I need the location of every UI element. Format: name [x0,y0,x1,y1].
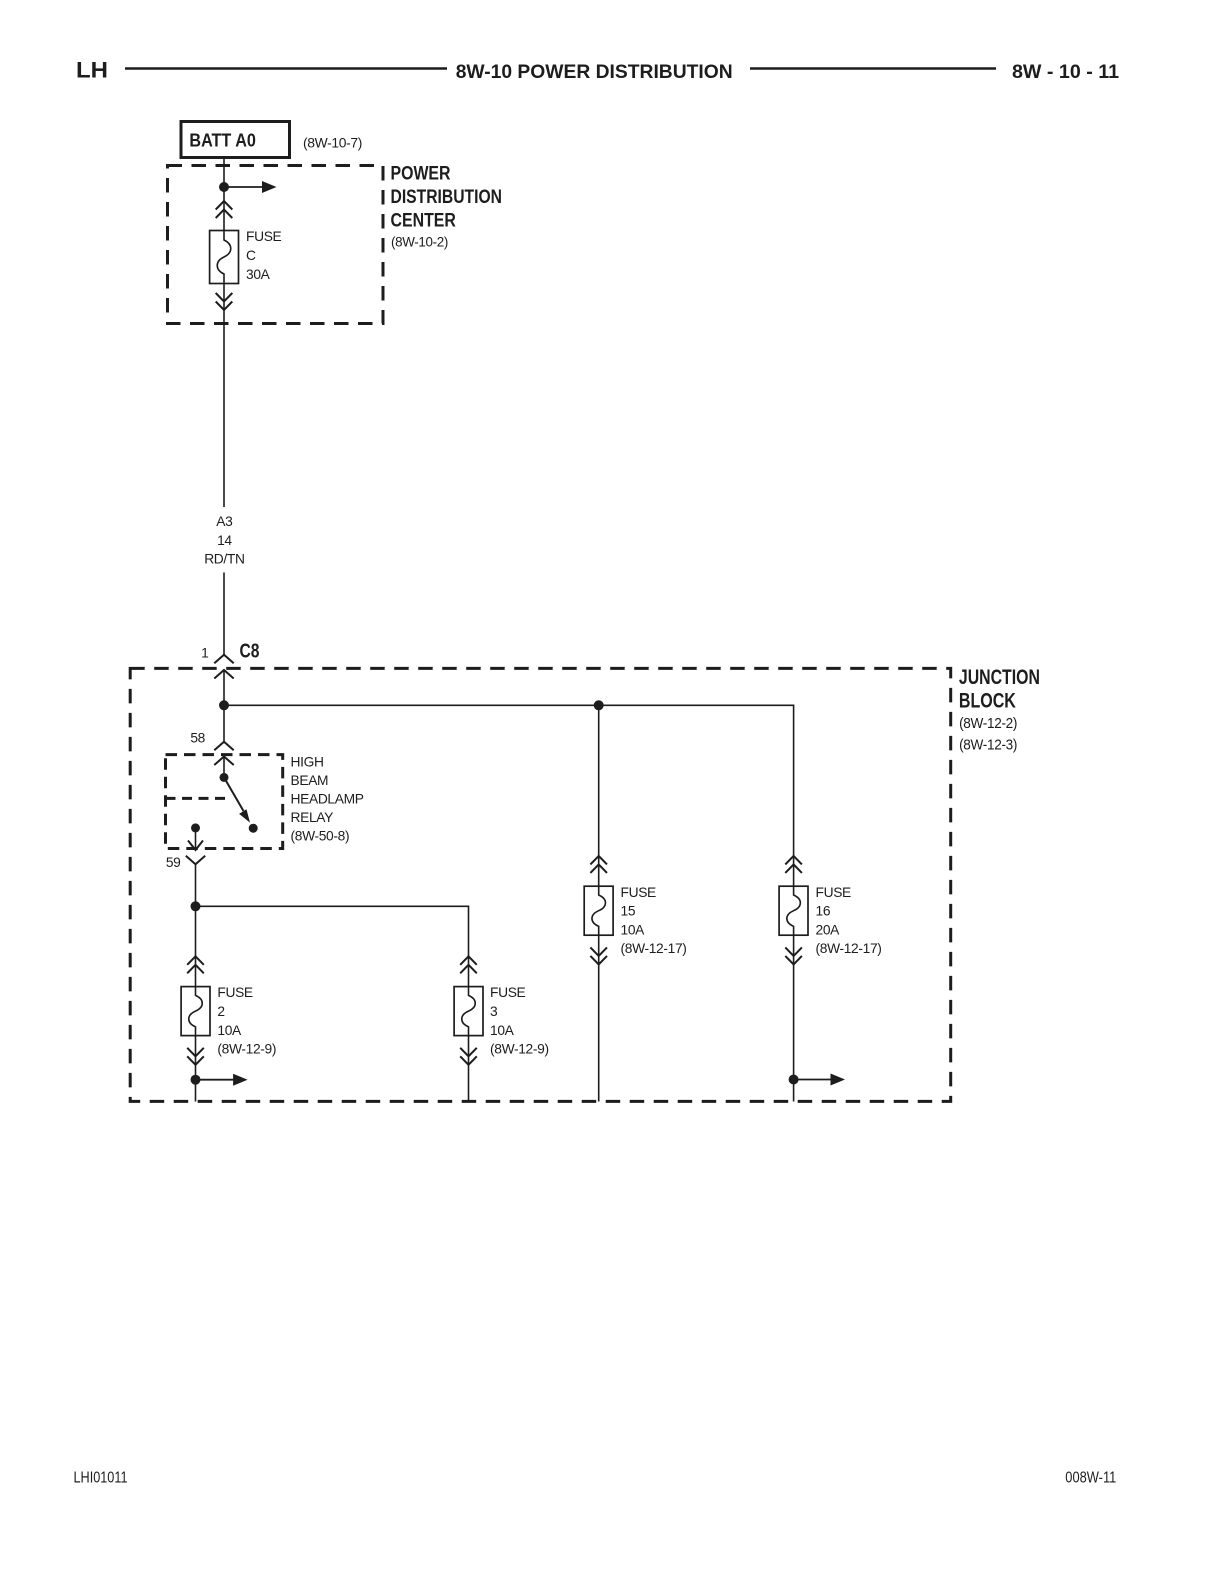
svg-text:FUSE: FUSE [621,885,657,900]
svg-text:008W-11: 008W-11 [1065,1469,1116,1486]
svg-text:(8W-12-17): (8W-12-17) [621,941,687,956]
svg-text:2: 2 [217,1004,224,1019]
svg-text:(8W-10-2): (8W-10-2) [391,234,448,250]
svg-text:(8W-12-17): (8W-12-17) [816,941,882,956]
svg-text:BEAM: BEAM [291,773,329,788]
svg-text:1: 1 [201,645,208,660]
svg-text:FUSE: FUSE [816,885,852,900]
svg-text:16: 16 [816,904,831,919]
svg-text:8W - 10 - 11: 8W - 10 - 11 [1012,61,1119,83]
svg-text:15: 15 [621,904,636,919]
svg-text:HEADLAMP: HEADLAMP [291,792,364,807]
svg-text:FUSE: FUSE [217,985,253,1000]
svg-text:(8W-12-9): (8W-12-9) [217,1042,276,1057]
svg-text:C: C [246,248,256,263]
svg-text:10A: 10A [490,1023,515,1038]
svg-text:(8W-12-9): (8W-12-9) [490,1042,549,1057]
svg-text:10A: 10A [217,1023,242,1038]
svg-text:3: 3 [490,1004,498,1019]
svg-text:RD/TN: RD/TN [204,552,244,567]
svg-text:BLOCK: BLOCK [959,690,1016,713]
svg-text:10A: 10A [621,922,646,937]
svg-text:59: 59 [166,855,181,870]
svg-text:20A: 20A [816,922,841,937]
svg-text:58: 58 [190,731,205,746]
svg-text:FUSE: FUSE [490,985,526,1000]
svg-text:(8W-12-2): (8W-12-2) [959,715,1017,732]
svg-text:30A: 30A [246,267,271,282]
svg-text:RELAY: RELAY [291,810,334,825]
svg-text:FUSE: FUSE [246,229,282,244]
svg-text:(8W-12-3): (8W-12-3) [959,736,1017,753]
svg-text:HIGH: HIGH [291,755,324,770]
svg-text:BATT A0: BATT A0 [189,131,256,151]
svg-text:JUNCTION: JUNCTION [959,666,1040,689]
svg-text:8W-10 POWER DISTRIBUTION: 8W-10 POWER DISTRIBUTION [456,61,733,83]
svg-text:CENTER: CENTER [391,210,457,231]
svg-text:A3: A3 [216,514,233,529]
svg-text:POWER: POWER [391,164,451,185]
svg-text:LHI01011: LHI01011 [74,1470,128,1487]
svg-text:(8W-10-7): (8W-10-7) [303,135,362,151]
svg-text:LH: LH [76,58,108,83]
svg-text:14: 14 [217,533,232,548]
svg-text:C8: C8 [240,640,260,662]
svg-text:(8W-50-8): (8W-50-8) [291,829,350,844]
svg-text:DISTRIBUTION: DISTRIBUTION [391,187,503,208]
